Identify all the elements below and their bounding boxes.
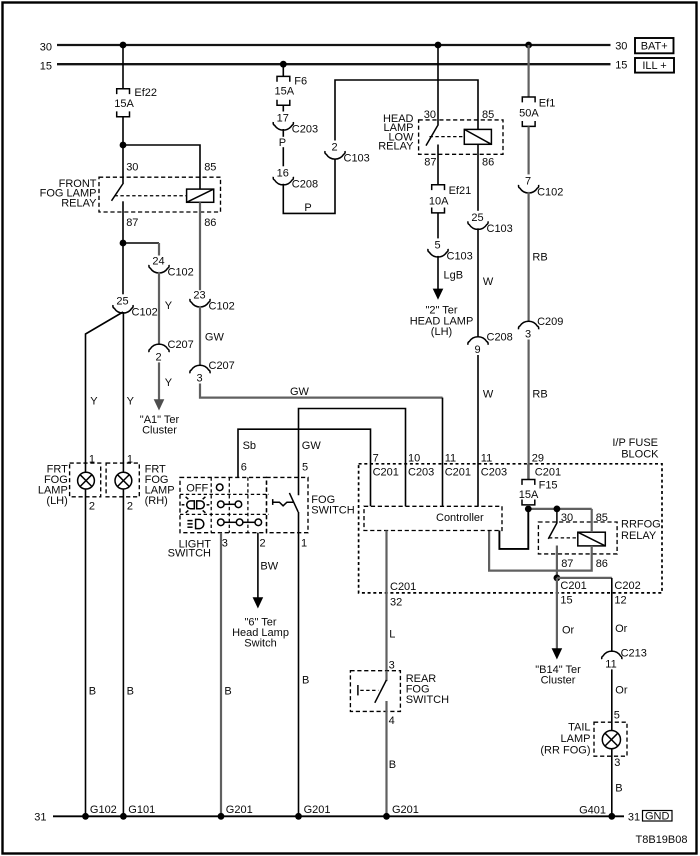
svg-text:F15: F15 — [539, 480, 558, 492]
svg-text:C208: C208 — [292, 178, 318, 190]
svg-text:C202: C202 — [614, 580, 640, 592]
wire diagonal to LH lamp — [86, 312, 124, 472]
svg-text:3: 3 — [614, 757, 620, 769]
front fog relay coil — [187, 189, 214, 202]
head relay coil — [464, 129, 491, 144]
connector 9 C208 — [468, 332, 513, 356]
svg-text:12: 12 — [614, 594, 626, 606]
wire down to connector 25 C102 — [122, 243, 124, 294]
C201 15 label — [560, 580, 586, 607]
FOG SWITCH box — [267, 477, 309, 532]
svg-text:W: W — [483, 389, 494, 401]
wire junction to relay coil 85 — [123, 145, 200, 189]
svg-text:31: 31 — [628, 811, 640, 823]
svg-text:SWITCH: SWITCH — [311, 504, 354, 516]
svg-text:23: 23 — [193, 289, 205, 301]
svg-text:32: 32 — [390, 596, 402, 608]
svg-text:Ef1: Ef1 — [539, 97, 556, 109]
svg-text:C203: C203 — [408, 466, 434, 478]
REAR FOG SWITCH label — [406, 673, 449, 706]
OFF row contact — [216, 484, 223, 491]
svg-text:3: 3 — [196, 372, 202, 384]
wire fog switch pin1 to ground — [298, 512, 300, 816]
svg-text:F6: F6 — [294, 75, 307, 87]
svg-text:7: 7 — [525, 175, 531, 187]
pin 10 C203 label — [408, 452, 434, 478]
svg-text:(LH): (LH) — [431, 326, 452, 338]
LIGHT SWITCH label — [168, 538, 212, 559]
wire BW light switch pin2 to arrow — [257, 533, 259, 598]
wire light switch pin3 to ground — [220, 533, 222, 817]
parking row contacts — [218, 501, 242, 508]
rrfog relay contact stub — [556, 509, 558, 523]
svg-text:LgB: LgB — [444, 270, 464, 282]
svg-text:85: 85 — [482, 109, 494, 121]
svg-text:C103: C103 — [487, 223, 513, 235]
svg-text:Switch: Switch — [244, 638, 276, 650]
wire GW fog switch pin5 to pin 10 C203 — [299, 409, 406, 507]
svg-text:B: B — [224, 686, 231, 698]
node at relay 30 — [554, 506, 561, 513]
wire coil 85 stub — [591, 509, 593, 532]
front fog relay link — [115, 195, 187, 197]
wire RB C209 to pin 29 C201 — [527, 340, 529, 480]
wire Or to B14 arrow — [556, 578, 558, 649]
svg-text:Y: Y — [165, 300, 173, 312]
wire bus30 to fuse Ef1 — [527, 45, 529, 97]
wire F15 node to controller — [499, 509, 528, 549]
bus line 15 (ILL+) — [40, 60, 628, 73]
svg-text:85: 85 — [204, 161, 216, 173]
GND box — [643, 810, 673, 822]
svg-text:RB: RB — [532, 252, 547, 264]
head relay link — [430, 136, 465, 138]
ground node G201 b — [295, 813, 302, 820]
wire Ef1 to connector 7 — [527, 126, 529, 174]
svg-text:25: 25 — [116, 295, 128, 307]
rrfog relay link — [549, 537, 578, 539]
node junction x=123 y=145 — [120, 142, 127, 149]
ILL+ box — [635, 58, 674, 73]
svg-text:31: 31 — [34, 811, 46, 823]
svg-text:Y: Y — [127, 396, 135, 408]
wire relay 87 down — [122, 201, 124, 243]
fuse Ef22 15A — [114, 87, 157, 117]
wire junction to connector 24 — [158, 243, 160, 256]
connector 5 C103 — [428, 239, 473, 262]
svg-text:30: 30 — [126, 161, 138, 173]
ground node G201 a — [218, 813, 225, 820]
svg-text:15A: 15A — [275, 86, 295, 98]
wire head relay 87 to fuse Ef21 — [437, 145, 439, 185]
svg-text:C201: C201 — [445, 466, 471, 478]
svg-text:LAMP: LAMP — [561, 733, 591, 745]
wire bus30 to fuse Ef22 — [122, 45, 124, 89]
tail lamp box — [594, 722, 627, 756]
relay FRONT FOG LAMP label — [40, 178, 97, 209]
svg-text:2: 2 — [89, 501, 95, 513]
node at F15 out — [525, 506, 532, 513]
connector 2 C207 — [149, 339, 194, 363]
rrfog relay switch arm — [548, 523, 557, 539]
svg-text:Y: Y — [90, 396, 98, 408]
svg-text:C102: C102 — [209, 300, 235, 312]
svg-text:C207: C207 — [209, 360, 235, 372]
wire bus30 to head relay contact 30 — [437, 45, 439, 126]
svg-text:C208: C208 — [487, 332, 513, 344]
svg-text:2: 2 — [127, 501, 133, 513]
light switch grid column lines — [211, 477, 248, 532]
connector 3 C209 — [518, 316, 563, 340]
svg-text:G201: G201 — [392, 804, 419, 816]
svg-text:(LH): (LH) — [46, 495, 67, 507]
svg-text:SWITCH: SWITCH — [406, 694, 449, 706]
svg-text:GW: GW — [205, 332, 225, 344]
rear fog switch arm — [375, 680, 387, 703]
RRFOG RELAY label — [621, 519, 661, 542]
pin 7 C201 label — [373, 452, 399, 478]
pin 29 C201 label — [532, 452, 561, 478]
svg-text:4: 4 — [389, 715, 395, 727]
svg-text:24: 24 — [152, 256, 164, 268]
2 Ter HEAD LAMP (LH) label — [410, 305, 474, 339]
arrow to A1 cluster — [154, 399, 165, 410]
A1 Ter Cluster label — [140, 414, 180, 437]
svg-text:25: 25 — [471, 212, 483, 224]
svg-text:Cluster: Cluster — [541, 675, 576, 687]
svg-text:I/P FUSE: I/P FUSE — [612, 437, 658, 449]
connector 23 C102 — [190, 289, 235, 312]
svg-text:B: B — [127, 686, 134, 698]
svg-text:C203: C203 — [481, 466, 507, 478]
svg-text:C201: C201 — [560, 580, 586, 592]
svg-text:2: 2 — [155, 351, 161, 363]
svg-text:11: 11 — [445, 452, 456, 464]
svg-text:85: 85 — [596, 512, 608, 524]
LIGHT SWITCH box — [180, 477, 267, 532]
relay HEAD LAMP LOW box — [419, 120, 503, 154]
fog switch actuator bar — [272, 499, 274, 505]
svg-text:(RR FOG): (RR FOG) — [540, 744, 590, 756]
svg-text:30: 30 — [424, 109, 436, 121]
arrow to B14 cluster — [552, 648, 563, 659]
wire head relay coil 86 down (W) — [477, 144, 479, 211]
svg-text:BW: BW — [260, 560, 278, 572]
wire 87 node to C202 branch — [557, 577, 612, 579]
wire Ef21 to connector 5 — [437, 213, 439, 239]
fuse F6 15A — [275, 75, 308, 105]
svg-text:3: 3 — [389, 659, 395, 671]
wire rrfog 87 down — [556, 546, 558, 578]
svg-text:B: B — [389, 759, 396, 771]
svg-text:C201: C201 — [535, 466, 561, 478]
svg-text:C201: C201 — [390, 581, 416, 593]
svg-text:86: 86 — [596, 558, 608, 570]
svg-text:Or: Or — [615, 685, 628, 697]
ground node G102 — [82, 813, 89, 820]
wire GW vertical into controller — [442, 398, 444, 507]
svg-text:C213: C213 — [621, 647, 647, 659]
svg-text:B: B — [89, 686, 96, 698]
lamp FRT FOG RH bulb — [115, 472, 132, 489]
wire to RH lamp — [122, 312, 124, 472]
svg-text:RELAY: RELAY — [61, 197, 97, 209]
svg-text:15: 15 — [40, 61, 52, 73]
svg-text:30: 30 — [561, 512, 573, 524]
parking lamp icon — [182, 497, 210, 513]
wire LgB to head lamp arrow — [437, 256, 439, 290]
svg-text:15: 15 — [615, 60, 627, 72]
svg-text:GND: GND — [645, 810, 670, 822]
connector 7 C102 — [518, 175, 563, 198]
Controller box — [364, 506, 502, 530]
connector 2 C103 — [325, 142, 370, 165]
wire F15 to node — [527, 505, 529, 509]
svg-text:15: 15 — [560, 594, 572, 606]
ground node G201 c — [383, 813, 390, 820]
svg-text:C209: C209 — [537, 316, 563, 328]
wire rear fog switch to ground — [385, 701, 387, 816]
wire C213 to tail lamp — [611, 669, 613, 730]
svg-text:G102: G102 — [90, 804, 117, 816]
wire 2 C207 to A1 arrow — [158, 362, 160, 400]
svg-text:17: 17 — [277, 113, 289, 125]
wire 17 to 16, label P — [282, 129, 284, 166]
svg-text:GW: GW — [302, 440, 322, 452]
wire branch to x=159 — [123, 242, 159, 244]
svg-text:5: 5 — [434, 239, 440, 251]
svg-text:C201: C201 — [373, 466, 399, 478]
lamp FRT FOG LH box — [70, 463, 101, 497]
pin 11 C203 label — [481, 452, 507, 478]
svg-text:87: 87 — [561, 558, 573, 570]
svg-text:RB: RB — [532, 389, 547, 401]
svg-text:Or: Or — [562, 625, 575, 637]
arrow to 6 Ter head lamp switch — [253, 597, 264, 608]
arrow to head lamp LH — [433, 289, 444, 300]
svg-text:86: 86 — [482, 156, 494, 168]
fuse Ef1 50A — [519, 97, 555, 126]
svg-text:7: 7 — [373, 452, 379, 464]
svg-text:G101: G101 — [128, 804, 155, 816]
svg-text:RRFOG: RRFOG — [621, 519, 661, 531]
node junction x=123 y=243 — [120, 240, 127, 247]
svg-text:C103: C103 — [447, 250, 473, 262]
wire bus15 to fuse F6 — [282, 64, 284, 76]
svg-text:1: 1 — [301, 538, 307, 550]
lamp FRT FOG LH bulb — [78, 472, 95, 489]
svg-text:OFF: OFF — [186, 482, 208, 494]
svg-text:Y: Y — [165, 377, 173, 389]
rear fog switch stub top — [385, 671, 387, 681]
fog switch arm — [289, 493, 298, 512]
svg-text:1: 1 — [89, 454, 95, 466]
wire RB 7 C102 to C209 — [527, 192, 529, 322]
wire tail lamp to ground — [611, 749, 613, 817]
headlamp icon — [187, 519, 203, 528]
svg-text:P: P — [279, 137, 286, 149]
connector 11 C213 — [602, 647, 647, 670]
svg-text:3: 3 — [525, 328, 531, 340]
bus line 31 (GND) — [34, 811, 640, 823]
svg-text:B: B — [615, 783, 622, 795]
wire fuse Ef22 to relay contact 30 — [122, 117, 124, 183]
svg-text:11: 11 — [605, 658, 616, 670]
fuse Ef21 10A — [429, 185, 471, 213]
front fog relay switch arm — [112, 183, 124, 201]
relay FRONT FOG LAMP box — [99, 177, 221, 212]
svg-text:Sb: Sb — [243, 440, 256, 452]
svg-text:Ef21: Ef21 — [449, 185, 472, 197]
svg-text:29: 29 — [532, 452, 544, 464]
wire LH lamp to ground — [85, 489, 87, 816]
6 Ter Head Lamp Switch label — [232, 617, 289, 650]
wire GW 3 C207 to pin 11 C201 — [200, 384, 443, 398]
I/P FUSE BLOCK label — [612, 437, 659, 461]
tail lamp bulb — [602, 731, 620, 749]
svg-text:15A: 15A — [114, 98, 134, 110]
svg-text:T8B19B08: T8B19B08 — [636, 834, 688, 846]
svg-text:10: 10 — [408, 452, 420, 464]
svg-text:L: L — [389, 628, 395, 640]
svg-text:B: B — [302, 674, 309, 686]
node 87 out — [554, 575, 561, 582]
svg-text:6: 6 — [241, 461, 247, 473]
FRT FOG LAMP (RH) label — [145, 464, 175, 508]
pin 11 C201 label — [445, 452, 471, 478]
lamp FRT FOG RH box — [106, 463, 139, 497]
C201 32 label — [390, 581, 416, 609]
svg-text:Cluster: Cluster — [142, 425, 177, 437]
svg-text:Ef22: Ef22 — [134, 87, 157, 99]
svg-text:30: 30 — [615, 40, 627, 52]
wire 24 to 2 C207 — [158, 272, 160, 345]
connector 3 C207 — [190, 360, 235, 384]
wire P loop bottom — [283, 159, 335, 214]
svg-text:C203: C203 — [292, 124, 318, 136]
svg-text:50A: 50A — [519, 107, 539, 119]
node on bus 30 at x=123 — [120, 42, 127, 49]
light switch row lines — [180, 494, 269, 514]
svg-text:11: 11 — [481, 452, 492, 464]
wire F6 to connector 17 — [282, 105, 284, 111]
svg-text:G201: G201 — [226, 804, 253, 816]
svg-text:C102: C102 — [132, 306, 158, 318]
connector 25 C103 — [468, 212, 513, 235]
svg-text:16: 16 — [277, 167, 289, 179]
svg-text:86: 86 — [204, 217, 216, 229]
rear fog switch actuator bar — [357, 685, 359, 695]
REAR FOG SWITCH box — [350, 671, 400, 712]
svg-text:30: 30 — [40, 41, 52, 53]
svg-text:(RH): (RH) — [145, 495, 168, 507]
svg-text:BAT+: BAT+ — [641, 41, 668, 53]
svg-text:P: P — [304, 202, 311, 214]
svg-text:10A: 10A — [429, 196, 449, 208]
wire front fog coil 86 down — [199, 202, 201, 290]
svg-text:C102: C102 — [537, 186, 563, 198]
FRT FOG LAMP (LH) label — [38, 464, 68, 508]
svg-text:Controller: Controller — [436, 512, 484, 524]
fog switch detent zigzag — [273, 502, 294, 506]
connector 25 C102 — [113, 295, 158, 318]
svg-text:15A: 15A — [519, 489, 539, 501]
svg-text:2: 2 — [331, 142, 337, 154]
wire W to pin 11 C203 — [477, 355, 479, 506]
svg-text:RELAY: RELAY — [378, 141, 414, 153]
TAIL LAMP (RR FOG) label — [540, 722, 590, 757]
svg-text:87: 87 — [424, 156, 436, 168]
ground node G401 — [608, 813, 615, 820]
rrfog relay coil — [578, 532, 606, 546]
svg-text:BLOCK: BLOCK — [621, 448, 659, 460]
head relay switch arm — [426, 126, 438, 146]
C202 12 label — [614, 580, 640, 607]
svg-text:5: 5 — [302, 461, 308, 473]
connector 24 C102 — [149, 256, 194, 279]
wire Sb light switch pin6 to pin 7 C201 — [238, 429, 371, 506]
wire node to RRFOG relay 30 and 85 — [528, 508, 591, 510]
svg-text:G201: G201 — [304, 804, 331, 816]
node on bus 30 at x=528.6 — [525, 42, 532, 49]
svg-text:G401: G401 — [579, 804, 606, 816]
svg-text:C207: C207 — [168, 339, 194, 351]
node on bus 30 at x=438 — [435, 42, 442, 49]
wire 2 C103 up to head lamp relay coil 85 — [335, 80, 478, 141]
rear fog switch link — [360, 689, 378, 691]
fuse F15 15A — [519, 464, 558, 505]
svg-text:TAIL: TAIL — [568, 722, 590, 734]
node on bus 15 at x=283.3 — [280, 61, 287, 68]
bus line 30 (BAT+) — [40, 40, 628, 53]
connector 16 C208 — [273, 167, 318, 190]
I/P FUSE BLOCK box — [359, 464, 662, 593]
svg-text:SWITCH: SWITCH — [168, 548, 211, 560]
wire controller to rear fog switch — [385, 531, 387, 671]
svg-text:9: 9 — [474, 344, 480, 356]
svg-text:1: 1 — [127, 454, 133, 466]
wire 23 to 3 C207 — [199, 306, 201, 366]
BAT+ box — [635, 38, 674, 53]
B14 Ter Cluster label — [535, 664, 581, 687]
wire RH lamp to ground — [122, 489, 124, 816]
svg-text:W: W — [483, 276, 494, 288]
wire coil 86 to controller — [489, 531, 592, 571]
svg-text:C103: C103 — [344, 153, 370, 165]
connector 17 C203 — [273, 113, 318, 136]
svg-text:5: 5 — [614, 710, 620, 722]
wire Or C202-12 down — [611, 578, 613, 652]
svg-text:C102: C102 — [168, 266, 194, 278]
svg-text:RELAY: RELAY — [621, 530, 657, 542]
head row contacts — [218, 519, 262, 526]
svg-text:ILL +: ILL + — [642, 60, 666, 72]
FOG SWITCH label — [311, 494, 354, 517]
relay HEAD LAMP LOW label — [378, 113, 414, 153]
svg-text:3: 3 — [222, 538, 228, 550]
svg-text:GW: GW — [290, 386, 310, 398]
svg-text:87: 87 — [126, 217, 138, 229]
svg-text:2: 2 — [260, 538, 266, 550]
RRFOG relay box — [538, 522, 617, 554]
ground node G101 — [120, 813, 127, 820]
wire W 25 C103 to 9 C208 — [477, 228, 479, 337]
svg-text:Or: Or — [615, 623, 628, 635]
